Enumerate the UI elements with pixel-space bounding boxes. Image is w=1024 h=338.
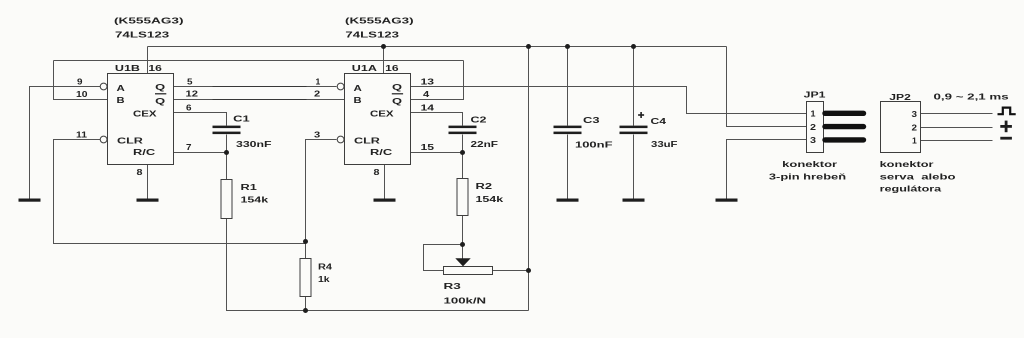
svg-text:33uF: 33uF <box>651 139 678 149</box>
svg-text:8: 8 <box>374 167 380 177</box>
icon minus supply <box>1000 137 1012 140</box>
wire VCC to JP1 pin2 <box>727 47 807 127</box>
wire C3 bottom to ground <box>567 135 569 199</box>
junction at U1A pin16 on rail <box>381 44 386 49</box>
svg-text:JP2: JP2 <box>889 92 911 102</box>
wire U1B pin12 Qbar to U1A pin2 B <box>174 99 345 101</box>
wire node pin15 to R2 top <box>462 153 464 179</box>
capacitor C1 plates <box>213 126 241 135</box>
svg-text:R/C: R/C <box>370 147 393 157</box>
svg-text:154k: 154k <box>241 194 269 204</box>
pin bubble U1B A pin9 <box>100 83 107 90</box>
svg-text:3-pin hrebeň: 3-pin hrebeň <box>769 171 846 181</box>
connector JP1 body box <box>807 102 824 153</box>
svg-text:1: 1 <box>912 136 917 146</box>
svg-text:7: 7 <box>186 142 192 152</box>
svg-text:10: 10 <box>76 89 88 99</box>
resistor R4 body <box>300 259 311 297</box>
overline Qbar U1B <box>155 93 166 94</box>
svg-text:2: 2 <box>912 122 918 132</box>
capacitor C3 plates <box>554 126 582 135</box>
svg-text:JP1: JP1 <box>804 89 826 99</box>
svg-text:U1B: U1B <box>115 63 140 73</box>
wire VCC drop x528 <box>528 47 530 311</box>
wire JP2 pin2 lead <box>921 127 993 129</box>
svg-text:Q: Q <box>392 82 402 92</box>
svg-text:regulátora: regulátora <box>880 183 942 193</box>
wire JP2 pin3 lead <box>921 113 993 115</box>
svg-text:14: 14 <box>421 102 435 112</box>
junction at C4 on rail <box>631 44 636 49</box>
svg-text:3: 3 <box>314 129 320 139</box>
wire R4 bottom to bottom rail <box>305 297 307 311</box>
svg-text:0,9 ~ 2,1 ms: 0,9 ~ 2,1 ms <box>934 92 1009 102</box>
svg-text:12: 12 <box>186 89 199 99</box>
capacitor C2 plates <box>449 126 477 135</box>
ground symbol at C3 <box>557 199 579 202</box>
svg-text:CLR: CLR <box>354 136 381 146</box>
junction at C3 on rail <box>565 44 570 49</box>
wire R1 bottom to bottom rail <box>227 219 529 311</box>
capacitor C4 plus polarity mark <box>638 112 644 118</box>
wire U1B pin6 CEX to C1 <box>174 113 227 126</box>
junction node C2 R2 pin15 <box>460 150 465 155</box>
resistor R2 body <box>457 179 468 216</box>
svg-text:R1: R1 <box>241 182 258 192</box>
wire wiper loop to R3 left <box>424 245 463 271</box>
wire U1B pin16 to rail <box>147 47 149 74</box>
svg-text:3: 3 <box>912 109 918 119</box>
svg-text:6: 6 <box>186 102 192 112</box>
connector JP1 pin3 header blade <box>825 137 864 142</box>
wire feedback right drop to U1A pin4 <box>411 61 464 100</box>
svg-text:2: 2 <box>810 122 816 132</box>
connector JP1 pin1 header blade <box>825 111 864 116</box>
svg-text:4: 4 <box>423 89 429 99</box>
wire U1A pin3 CLR to R4 node <box>306 140 337 242</box>
svg-text:C1: C1 <box>233 114 250 124</box>
svg-text:15: 15 <box>421 142 435 152</box>
svg-text:B: B <box>117 95 125 105</box>
svg-text:1: 1 <box>811 109 816 119</box>
svg-text:22nF: 22nF <box>471 139 499 149</box>
junction node R2 wiper <box>460 242 465 247</box>
svg-text:16: 16 <box>148 63 162 73</box>
ground symbol at U1B pin8 <box>137 199 159 202</box>
junction at VCC drop on rail <box>526 44 531 49</box>
svg-text:9: 9 <box>77 76 83 86</box>
svg-text:2: 2 <box>314 89 320 99</box>
wire overlap dark segment row B <box>213 99 307 101</box>
svg-text:154k: 154k <box>476 194 504 204</box>
capacitor C4 plates <box>620 126 648 135</box>
svg-text:CLR: CLR <box>117 136 144 146</box>
svg-text:8: 8 <box>137 167 143 177</box>
svg-text:74LS123: 74LS123 <box>345 30 399 40</box>
wire C4 bottom to ground <box>633 135 635 199</box>
svg-text:13: 13 <box>421 76 435 86</box>
svg-text:Q: Q <box>155 82 165 92</box>
potentiometer R3 wiper arrow <box>455 258 470 266</box>
pin bubble U1B CLR pin11 <box>100 136 107 143</box>
connector JP2 body box <box>881 102 921 153</box>
wire C4 top <box>633 47 635 126</box>
wire CLR node to R4 top <box>305 242 307 259</box>
wire U1A pin8 to ground <box>384 165 386 199</box>
svg-text:3: 3 <box>810 135 816 145</box>
wire node pin7 to R1 top <box>226 153 228 180</box>
wire R2 bottom to wiper node <box>462 216 464 245</box>
svg-text:(K555AG3): (K555AG3) <box>345 16 414 26</box>
svg-text:100nF: 100nF <box>575 139 613 149</box>
svg-text:CEX: CEX <box>133 109 157 119</box>
svg-text:1: 1 <box>316 76 321 86</box>
op-amp U1A body box <box>345 74 411 165</box>
svg-text:A: A <box>117 83 126 93</box>
svg-text:C2: C2 <box>471 115 487 125</box>
svg-text:R2: R2 <box>476 181 493 191</box>
wire U1B pin9 A to ground <box>30 87 101 199</box>
svg-text:1k: 1k <box>318 274 330 284</box>
svg-text:11: 11 <box>76 129 87 139</box>
svg-text:Q: Q <box>155 96 165 106</box>
svg-text:(K555AG3): (K555AG3) <box>114 16 184 26</box>
wire U1B pin11 CLR net <box>54 140 306 244</box>
ground symbol at U1A pin8 <box>374 199 396 202</box>
wire U1B pin5 Q to U1A pin1 A <box>174 86 337 88</box>
potentiometer R3 body <box>444 267 493 275</box>
wire U1A pin13 Q to JP1 pin1 <box>411 87 807 114</box>
overline Qbar U1A <box>392 93 403 94</box>
wire C3 top <box>567 47 569 126</box>
icon servo pulse waveform <box>998 108 1016 115</box>
pin bubble U1A CLR pin3 <box>337 136 344 143</box>
ground symbol at C4 <box>623 199 645 202</box>
pin bubble U1A A pin1 <box>337 83 344 90</box>
svg-text:16: 16 <box>385 63 399 73</box>
wire R3 right to VCC drop <box>493 270 529 272</box>
connector JP1 pin2 header blade <box>825 124 864 129</box>
wire U1A Q-bar feedback top run y60 <box>54 60 464 62</box>
wire JP1 pin3 to ground <box>727 140 807 199</box>
svg-text:5: 5 <box>187 76 193 86</box>
wire wiper node to R3 arrow <box>462 245 464 260</box>
svg-text:konektor: konektor <box>880 159 935 169</box>
ground symbol at U1B pin9 net <box>19 199 41 202</box>
junction node C1 R1 pin7 <box>224 150 229 155</box>
svg-text:74LS123: 74LS123 <box>115 29 169 39</box>
wire C1 bottom to node pin7 <box>226 135 228 153</box>
wire U1A pin14 CEX to C2 <box>411 113 463 126</box>
svg-text:serva alebo: serva alebo <box>880 171 956 181</box>
wire feedback left drop to U1B pin10 B <box>54 61 108 100</box>
svg-text:CEX: CEX <box>370 109 394 119</box>
svg-text:A: A <box>354 83 363 93</box>
wire U1A pin15 R/C <box>411 152 463 154</box>
svg-text:R4: R4 <box>318 262 332 272</box>
svg-text:konektor: konektor <box>782 159 838 169</box>
wire U1B pin7 R/C <box>174 152 227 154</box>
wire VCC top rail <box>148 46 727 48</box>
wire C2 bottom to node pin15 <box>462 135 464 153</box>
op-amp U1B body box <box>108 74 174 165</box>
wire U1B pin8 to ground <box>147 165 149 199</box>
junction node R3 right VCC drop <box>526 268 531 273</box>
wire U1A pin16 to rail <box>383 47 385 74</box>
wire JP2 pin1 lead <box>921 140 993 142</box>
svg-text:U1A: U1A <box>352 63 378 73</box>
resistor R1 body <box>221 180 232 219</box>
svg-text:R3: R3 <box>444 281 462 291</box>
svg-text:Q: Q <box>392 96 402 106</box>
svg-text:100k/N: 100k/N <box>444 295 487 305</box>
svg-text:B: B <box>354 95 362 105</box>
junction node CLR R4 <box>303 239 308 244</box>
svg-text:C3: C3 <box>583 115 600 125</box>
svg-text:R/C: R/C <box>133 147 156 157</box>
junction node R4 bottom rail <box>303 308 308 313</box>
svg-text:C4: C4 <box>651 116 667 126</box>
ground symbol at JP1 pin3 <box>716 199 738 202</box>
svg-text:330nF: 330nF <box>236 139 272 149</box>
wire overlap dark segment row A <box>213 86 307 88</box>
icon plus supply <box>1000 121 1012 133</box>
